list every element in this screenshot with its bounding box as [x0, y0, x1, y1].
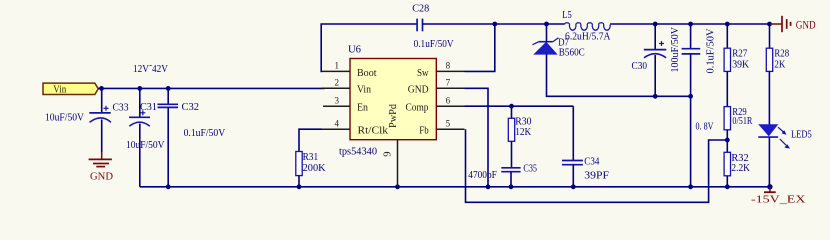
node C30 bottom: [653, 94, 658, 99]
pin 5: [436, 128, 464, 130]
pin 7: [436, 87, 464, 89]
svg-text:C34: C34: [584, 155, 600, 167]
svg-text:0.1uF/50V: 0.1uF/50V: [184, 127, 226, 139]
capacitor C33: [45, 88, 129, 152]
ground GND (C33): [89, 152, 113, 182]
svg-text:2: 2: [335, 78, 340, 88]
svg-text:L5: L5: [562, 9, 572, 21]
LED LED5: [758, 125, 812, 149]
power -15V_EX port: [751, 187, 806, 206]
svg-text:200K: 200K: [303, 162, 326, 174]
node rail-C35: [509, 184, 514, 189]
node Vin-C31 junction: [137, 86, 142, 91]
node rail-LED5: [767, 184, 772, 189]
svg-text:4: 4: [335, 118, 340, 128]
wire Boot to C28 line: [321, 24, 417, 71]
port Vin: [43, 83, 98, 96]
svg-text:U6: U6: [348, 43, 361, 55]
svg-text:12K: 12K: [515, 126, 531, 138]
svg-text:GND: GND: [90, 170, 113, 182]
wire pin5 Fb path: [466, 129, 728, 202]
IC U6 tps54340: [339, 43, 436, 157]
resistor R32: [724, 152, 750, 176]
svg-text:8: 8: [446, 61, 451, 71]
svg-text:4700pF: 4700pF: [468, 170, 497, 181]
svg-text:7: 7: [446, 78, 451, 88]
wire top rail: [423, 23, 565, 25]
node Comp-R30: [509, 104, 514, 109]
node rail-R32: [725, 184, 730, 189]
svg-text:10uF/50V: 10uF/50V: [45, 112, 84, 124]
svg-text:En: En: [357, 102, 369, 113]
svg-text:C30: C30: [632, 60, 648, 72]
svg-text:0.1uF/50V: 0.1uF/50V: [414, 38, 454, 50]
wire Sw riser: [465, 24, 495, 71]
node rail-outfeed: [688, 184, 693, 189]
svg-text:C33: C33: [113, 101, 129, 113]
svg-text:1: 1: [335, 61, 340, 71]
svg-text:2K: 2K: [774, 58, 785, 70]
svg-text:C35: C35: [523, 162, 537, 174]
svg-text:2.2K: 2.2K: [731, 162, 750, 174]
node rail-C32: [166, 184, 171, 189]
wire pin4 to R31: [299, 129, 322, 151]
wire R29-R32, node 0.8V: [726, 130, 728, 153]
svg-text:39K: 39K: [732, 58, 749, 70]
node rail-pin9: [395, 184, 400, 189]
wire Vin line: [98, 87, 324, 89]
svg-text:Sw: Sw: [417, 68, 429, 79]
capacitor C28: [412, 2, 453, 50]
pin 1: [322, 70, 351, 72]
svg-text:100uF/50V: 100uF/50V: [669, 27, 681, 73]
node rail-pin7: [486, 184, 491, 189]
svg-text:PwPd: PwPd: [388, 103, 399, 128]
svg-text:0.1uF/50V: 0.1uF/50V: [705, 28, 717, 73]
node 0.1uF bottom: [688, 94, 693, 99]
svg-text:Comp: Comp: [406, 102, 429, 113]
inductor L5: [562, 9, 610, 43]
svg-text:3: 3: [335, 95, 340, 105]
wire pin7 GND drop: [465, 88, 489, 187]
svg-text:6.2uH/5.7A: 6.2uH/5.7A: [565, 31, 611, 43]
node Vin-C32 junction: [166, 86, 171, 91]
capacitor C32: [158, 88, 226, 186]
svg-text:tps54340: tps54340: [339, 145, 377, 157]
svg-text:GND: GND: [796, 18, 816, 32]
capacitor C31: [126, 88, 165, 186]
svg-text:C31: C31: [140, 101, 157, 113]
capacitor C34: [562, 106, 609, 187]
svg-text:0. 8V: 0. 8V: [696, 121, 714, 133]
svg-text:-15V_EX: -15V_EX: [751, 194, 806, 206]
svg-text:Vin: Vin: [357, 85, 372, 96]
pin 2: [322, 87, 351, 89]
svg-text:39PF: 39PF: [584, 170, 609, 182]
capacitor C30: [632, 22, 682, 97]
svg-text:Fb: Fb: [419, 126, 428, 137]
pin 9: [397, 140, 399, 187]
wire D7 anode to -15V line: [547, 54, 691, 96]
node rail-R31: [297, 184, 302, 189]
svg-text:Rt/Clk: Rt/Clk: [358, 126, 389, 137]
pin 3: [323, 105, 350, 107]
node Sw-rail: [492, 22, 497, 27]
node Vin-C33 junction: [99, 86, 104, 91]
resistor R31: [296, 151, 326, 176]
svg-text:0/51R: 0/51R: [732, 115, 752, 127]
svg-text:5: 5: [446, 118, 451, 128]
svg-text:C28: C28: [412, 2, 429, 14]
svg-text:Vin: Vin: [53, 84, 66, 96]
svg-text:C32: C32: [182, 101, 200, 113]
svg-text:9: 9: [383, 152, 394, 157]
svg-text:Boot: Boot: [357, 68, 377, 79]
wire pin6 Comp line: [465, 105, 574, 107]
node D7-rail: [544, 22, 549, 27]
wire R28-LED5: [768, 71, 770, 124]
diode D7 B560C: [533, 24, 585, 59]
capacitor 0.1uF/50V output: [682, 22, 717, 97]
wire -15V feed down: [690, 96, 692, 187]
svg-text:10uF/50V: 10uF/50V: [126, 139, 165, 151]
resistor R28: [766, 22, 789, 72]
pin 6: [436, 105, 464, 107]
pin 8: [436, 70, 464, 72]
svg-text:12V˜42V: 12V˜42V: [133, 63, 168, 75]
wire bottom rail (-15V net): [140, 186, 770, 188]
wire R27-R29: [726, 71, 728, 106]
svg-text:GND: GND: [408, 85, 429, 96]
resistor R29: [724, 106, 753, 130]
pin 4: [322, 128, 351, 130]
capacitor C35: [468, 141, 537, 187]
resistor R27: [724, 22, 749, 72]
svg-text:B560C: B560C: [559, 47, 585, 59]
svg-text:LED5: LED5: [791, 129, 812, 141]
power GND top right: [771, 16, 816, 32]
node rail-C34: [571, 184, 576, 189]
resistor R30: [508, 106, 532, 141]
svg-text:6: 6: [446, 95, 451, 105]
